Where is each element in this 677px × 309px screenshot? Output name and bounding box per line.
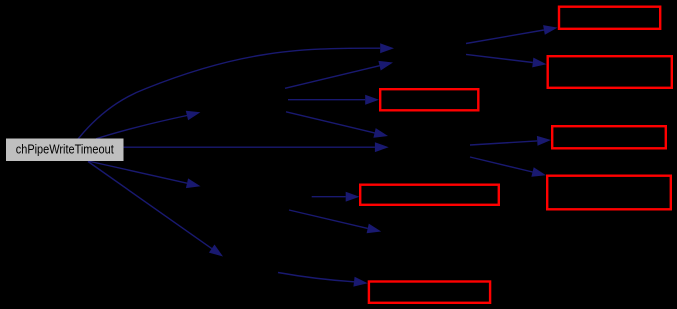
svg-text:chPipeWriteTimeout: chPipeWriteTimeout [16, 142, 114, 157]
